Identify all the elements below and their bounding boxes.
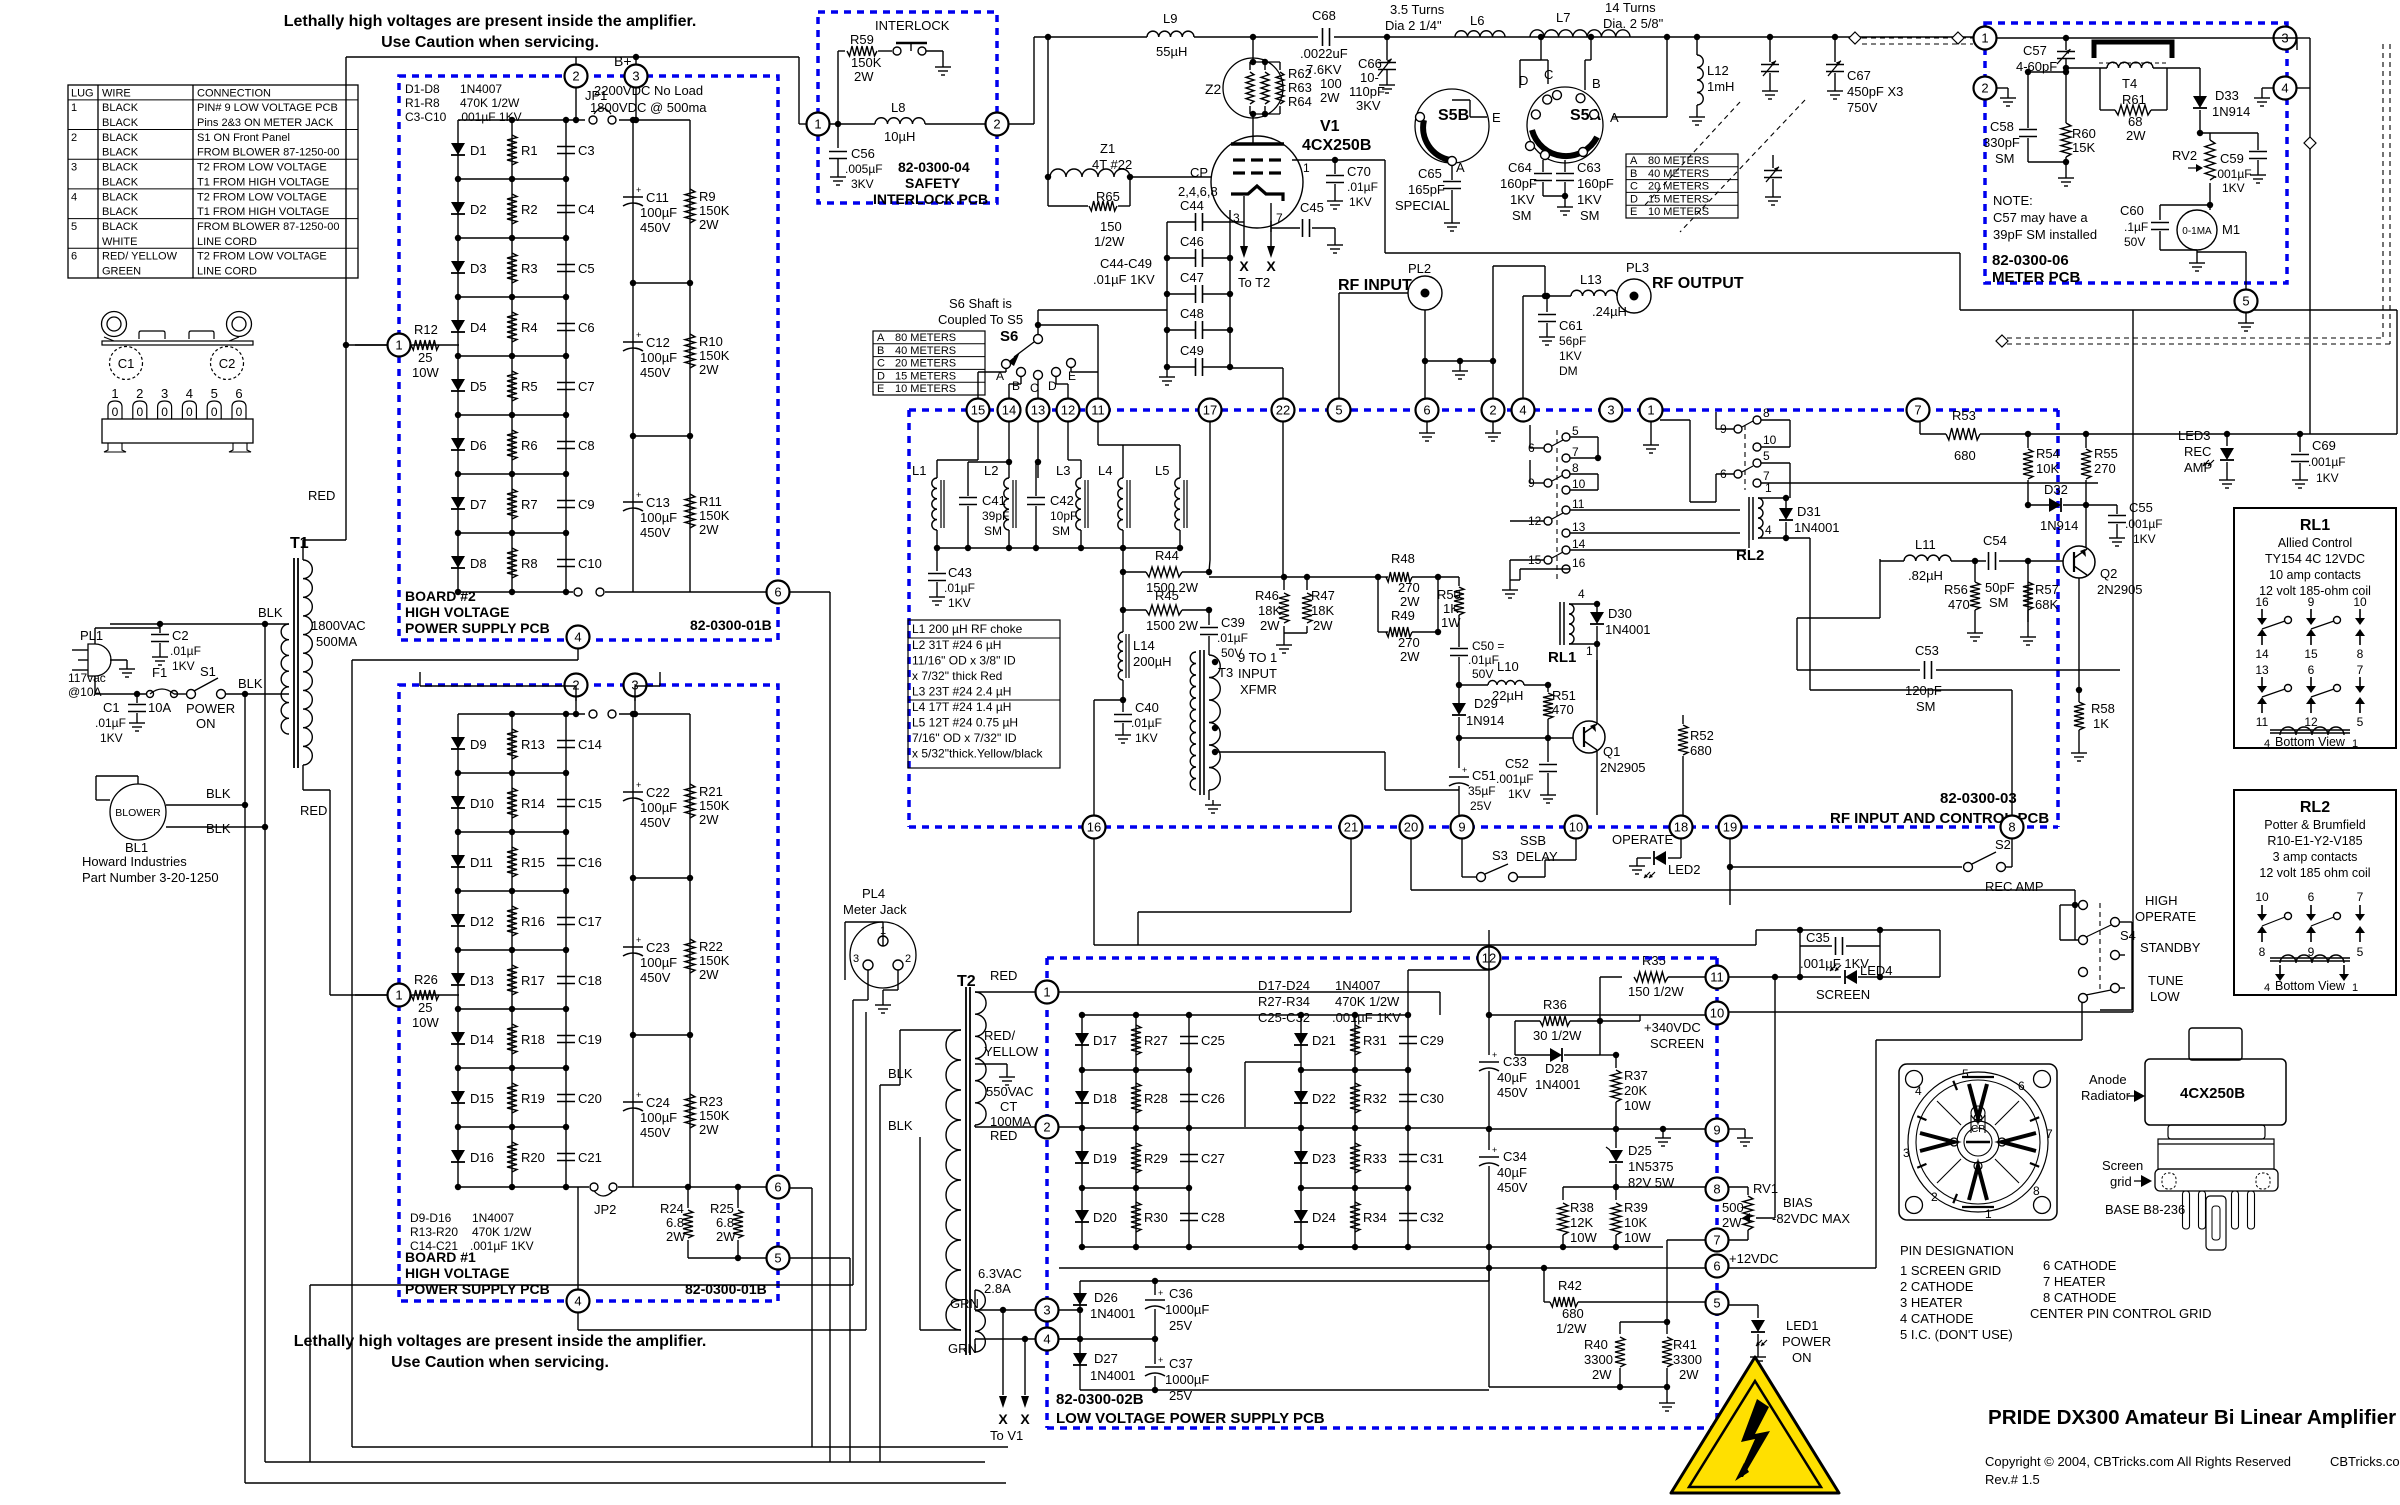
svg-text:C4: C4 [578,202,595,217]
inductor L2 [984,463,1016,548]
wire R46 R47 feed [1209,574,1378,580]
svg-text:50V: 50V [1472,667,1493,681]
capacitor C47 [1164,270,1233,303]
tube side view body [2155,1125,2278,1250]
resistor R59 [838,32,892,84]
relay RL2 contact 9 [1720,421,1753,436]
wire board2 node2 to interlock node1 [576,57,806,124]
svg-text:PL2: PL2 [1408,261,1431,276]
svg-text:R58: R58 [2091,701,2115,716]
svg-text:8: 8 [2259,945,2266,959]
node 3 board1 [624,674,647,697]
warning text bottom [294,1333,707,1371]
capacitor C33 [1479,1021,1528,1129]
svg-text:450V: 450V [640,220,671,235]
svg-text:SM: SM [1512,208,1532,223]
svg-text:.01µF 1KV: .01µF 1KV [1093,272,1155,287]
resistor R36 [1408,997,1600,1128]
svg-text:C51: C51 [1472,768,1496,783]
svg-text:R27-R34: R27-R34 [1258,994,1310,1009]
LED4 SCREEN [1800,946,1893,1002]
svg-text:SM: SM [984,524,1002,538]
capacitor C14 [557,737,602,752]
svg-text:C70: C70 [1347,164,1371,179]
wire board2 bottom rail [455,588,778,596]
svg-text:S4: S4 [2120,928,2136,943]
svg-text:10W: 10W [412,1015,439,1030]
wire right edge long run [2133,310,2397,434]
svg-text:C52: C52 [1505,756,1529,771]
svg-text:1N4001: 1N4001 [1794,520,1840,535]
diode D13 [451,973,494,988]
impedance Z2 [1205,58,1283,118]
variable capacitor tune [1761,37,1779,99]
svg-text:4CX250B: 4CX250B [2180,1085,2245,1102]
svg-text:270: 270 [2094,461,2116,476]
svg-text:10K: 10K [1624,1215,1647,1230]
svg-text:25V: 25V [1169,1388,1192,1403]
wire node 11 to LED4 [1729,930,1940,980]
node 1 RF top [1640,399,1663,422]
svg-text:T1: T1 [290,535,309,552]
svg-text:.01µF: .01µF [1347,180,1378,194]
svg-text:C1: C1 [118,356,135,371]
svg-text:5: 5 [1962,1067,1969,1081]
svg-text:1N5375: 1N5375 [1628,1159,1674,1174]
svg-text:SAFETY: SAFETY [905,175,961,191]
svg-text:PL3: PL3 [1626,260,1649,275]
svg-text:D14: D14 [470,1032,494,1047]
svg-text:1N4001: 1N4001 [1605,622,1651,637]
svg-text:D: D [877,370,885,382]
svg-text:1000µF: 1000µF [1165,1372,1209,1387]
node 12 RF top [1057,399,1080,422]
svg-text:8: 8 [1763,406,1770,420]
svg-text:2: 2 [572,69,579,84]
inductor L4 [1098,463,1130,548]
potentiometer RV1 [1722,1181,1778,1240]
wire Q2 emitter down [2076,505,2086,702]
svg-text:C2: C2 [172,628,189,643]
svg-text:R20: R20 [521,1150,545,1165]
svg-text:1000µF: 1000µF [1165,1302,1209,1317]
svg-text:X: X [998,1411,1008,1427]
svg-text:C68: C68 [1312,8,1336,23]
svg-text:450V: 450V [1497,1085,1528,1100]
svg-text:BL1: BL1 [125,840,148,855]
svg-text:270: 270 [1398,635,1420,650]
node 12 LV [1478,947,1501,970]
capacitor C50 [1450,639,1504,685]
svg-text:RED/ YELLOW: RED/ YELLOW [102,251,178,263]
svg-text:10: 10 [1710,1006,1724,1021]
T2 secondary LT winding [975,1290,985,1352]
svg-text:6: 6 [71,251,77,263]
ground node2 RF [1485,422,1501,441]
svg-text:C65: C65 [1418,166,1442,181]
capacitor C58 [1983,69,2066,166]
svg-text:BLACK: BLACK [102,102,139,114]
svg-text:RED: RED [990,968,1017,983]
node 14 RF top [998,399,1021,422]
capacitor C7 [557,379,595,394]
svg-text:R44: R44 [1155,548,1179,563]
svg-text:1W: 1W [1441,615,1461,630]
svg-text:R10: R10 [699,334,723,349]
svg-text:2W: 2W [699,362,719,377]
resistor R50 [1437,577,1464,647]
svg-text:0: 0 [236,405,243,419]
svg-text:12: 12 [1061,403,1075,418]
svg-text:S5B: S5B [1438,107,1469,124]
svg-text:80 METERS: 80 METERS [1648,155,1709,167]
svg-text:R51: R51 [1552,688,1576,703]
diode D10 [451,796,494,811]
RF input and control PCB box 82-0300-03 [909,410,2058,827]
transformer T2 [957,973,976,1355]
board #1 high voltage power supply PCB box [399,685,778,1301]
diode D11 [451,855,493,870]
svg-text:R21: R21 [699,784,723,799]
svg-text:C69: C69 [2312,438,2336,453]
svg-text:2W: 2W [699,812,719,827]
svg-text:C30: C30 [1420,1091,1444,1106]
svg-text:1: 1 [1043,985,1050,1000]
svg-text:C35: C35 [1806,930,1830,945]
svg-text:Coupled To S5: Coupled To S5 [938,312,1023,327]
ground node2 meter [1997,88,2016,106]
svg-text:Part Number 3-20-1250: Part Number 3-20-1250 [82,870,219,885]
wire RL1 coil to Q1 [1596,644,1598,700]
svg-text:Bottom View: Bottom View [2275,979,2346,993]
board #1 parts note [410,1211,534,1253]
relay coil RL2 [1736,481,1786,564]
wire RL1 contacts routing [1502,425,1746,598]
svg-text:T1 FROM HIGH VOLTAGE: T1 FROM HIGH VOLTAGE [197,176,329,188]
relay RL1 contact 15 [1528,552,1563,567]
svg-text:.01µF: .01µF [95,716,126,730]
svg-text:2200VDC No Load: 2200VDC No Load [594,83,703,98]
svg-text:L4 17T #24 1.4 µH: L4 17T #24 1.4 µH [912,700,1011,714]
svg-text:30 1/2W: 30 1/2W [1533,1028,1582,1043]
svg-text:5: 5 [71,221,77,233]
svg-text:C26: C26 [1201,1091,1225,1106]
svg-text:C: C [877,358,885,370]
svg-text:R40: R40 [1584,1337,1608,1352]
wire R36 to node 10 [1486,1012,1705,1024]
svg-text:BIAS: BIAS [1783,1195,1813,1210]
node 20 RF bottom [1400,816,1423,839]
svg-text:B: B [1012,379,1020,393]
svg-text:R28: R28 [1144,1091,1168,1106]
wire node7 wiring [1620,1240,1705,1325]
svg-text:D18: D18 [1093,1091,1117,1106]
svg-text:16: 16 [2255,595,2269,609]
svg-text:.0022uF: .0022uF [1300,46,1348,61]
LED3 REC AMP [2178,428,2235,488]
svg-text:4: 4 [71,191,77,203]
resistors R62 R63 R64 [1246,37,1342,117]
svg-text:R56: R56 [1944,582,1968,597]
svg-text:R64: R64 [1288,94,1312,109]
T1 primary winding [281,624,289,734]
svg-text:A: A [877,332,885,344]
inductor L13 [1571,272,1627,319]
svg-text:C9: C9 [578,497,595,512]
svg-text:C63: C63 [1577,160,1601,175]
capacitor C26 [1180,1091,1225,1106]
resistor R11 [685,494,730,537]
svg-text:1N4007: 1N4007 [472,1211,514,1225]
svg-text:.1µF: .1µF [2124,220,2148,234]
svg-text:9: 9 [2308,595,2315,609]
svg-text:1KV: 1KV [1135,731,1158,745]
svg-text:R55: R55 [2094,446,2118,461]
svg-text:D17: D17 [1093,1033,1117,1048]
capacitor C44 [1167,198,1230,231]
capacitor C23 [623,935,677,985]
wire PL2 ground bus [1422,266,1496,398]
coupling diamonds [1849,32,2316,347]
potentiometer RV2 [2172,133,2215,180]
interlock switch [893,43,951,75]
svg-text:18: 18 [1674,820,1688,835]
svg-text:D24: D24 [1312,1210,1336,1225]
capacitor C2 body [211,347,244,380]
relay RL1 contact 16 [1562,556,1586,573]
svg-text:R33: R33 [1363,1151,1387,1166]
svg-text:7: 7 [1763,469,1770,483]
svg-text:R54: R54 [2036,446,2060,461]
capacitor C63 [1543,160,1614,223]
resistor R1 [507,135,538,165]
capacitor C49 [1164,343,1233,376]
terminal strip lugs 1-6 [102,386,253,452]
svg-text:C3: C3 [578,143,595,158]
svg-text:6.8: 6.8 [666,1215,684,1230]
svg-text:LINE CORD: LINE CORD [197,236,257,248]
wire R40 R41 bottom [1489,1247,1675,1411]
relay RL1 pin diagram [2255,595,2367,729]
svg-text:POWER SUPPLY PCB: POWER SUPPLY PCB [405,620,550,636]
svg-text:D26: D26 [1094,1290,1118,1305]
capacitor C40 [1114,697,1162,745]
svg-text:R62: R62 [1288,66,1312,81]
capacitor C48 [1164,306,1233,339]
svg-text:DM: DM [1559,364,1578,378]
inductor L11 [1880,537,1986,583]
svg-text:C43: C43 [948,565,972,580]
svg-text:BOARD #2: BOARD #2 [405,588,476,604]
wire Q1 base feed [1459,737,1573,739]
diode D3 [451,261,487,276]
svg-text:Lethally high voltages are pre: Lethally high voltages are present insid… [294,1333,707,1350]
svg-text:2W: 2W [1722,1215,1742,1230]
wire RL2 contacts routing [1660,412,2098,502]
capacitor C53 [1797,643,2120,714]
svg-text:LOW: LOW [2150,989,2180,1004]
svg-text:INTERLOCK PCB: INTERLOCK PCB [873,191,988,207]
svg-text:680: 680 [1954,448,1976,463]
svg-text:3300: 3300 [1673,1352,1702,1367]
svg-text:D10: D10 [470,796,494,811]
meter pcb title [1992,252,2081,286]
resistor R44 [1120,548,1209,595]
svg-text:Lethally high voltages are pre: Lethally high voltages are present insid… [284,13,697,30]
svg-text:0: 0 [161,405,168,419]
wire L13 to RF box [1493,266,1571,398]
svg-text:To T2: To T2 [1238,275,1270,290]
svg-text:6: 6 [235,386,242,401]
svg-text:5: 5 [2357,715,2364,729]
node 5 RF top [1328,399,1351,422]
svg-text:470K 1/2W: 470K 1/2W [1335,994,1400,1009]
svg-text:C16: C16 [578,855,602,870]
svg-text:68: 68 [2128,114,2142,129]
wire elec rails [630,714,693,1187]
relay RL1 contact 8 [1562,461,1579,478]
svg-text:SCREEN: SCREEN [1650,1036,1704,1051]
svg-text:Z1: Z1 [1100,141,1115,156]
diode D32 [2028,482,2086,533]
relay RL1 contact 11 [1562,497,1585,514]
svg-text:.005µF: .005µF [845,162,883,176]
resistor R61 [2063,65,2167,143]
svg-text:RL2: RL2 [2300,799,2330,816]
relay RL1 coil symbol [2264,727,2358,750]
svg-text:D31: D31 [1797,504,1821,519]
node 11 LV [1706,966,1729,989]
resistor R33 [1350,1143,1387,1173]
svg-text:JP1: JP1 [585,88,607,103]
svg-text:3: 3 [853,953,859,965]
board #2 voltage note [590,83,707,115]
svg-text:470K 1/2W: 470K 1/2W [472,1225,532,1239]
svg-text:L1 200 µH RF choke: L1 200 µH RF choke [912,622,1023,636]
svg-text:L4: L4 [1098,463,1112,478]
relay RL1 contact 10 [1562,477,1586,494]
svg-text:C10: C10 [578,556,602,571]
low voltage PCB box 82-0300-02B [1047,958,1717,1428]
svg-text:450V: 450V [640,1125,671,1140]
wire L14 C40 to node16 [1094,700,1123,815]
svg-text:R36: R36 [1543,997,1567,1012]
resistor R30 [1131,1202,1168,1232]
svg-text:14: 14 [2255,647,2269,661]
svg-text:D29: D29 [1474,696,1498,711]
svg-text:.82µH: .82µH [1908,568,1943,583]
svg-text:C54: C54 [1983,533,2007,548]
capacitor C18 [557,973,602,988]
resistor R48 [1375,551,1441,609]
svg-text:C40: C40 [1135,700,1159,715]
svg-text:3KV: 3KV [1356,98,1381,113]
capacitor C51 [1449,738,1496,813]
svg-text:R13: R13 [521,737,545,752]
wire node12 stub [1488,930,1490,946]
resistor R52 [1678,715,1714,815]
svg-text:D9: D9 [470,737,487,752]
terminal strip C1 C2 mounting [102,312,254,346]
svg-text:.24µH: .24µH [1592,304,1627,319]
svg-text:80 METERS: 80 METERS [895,332,956,344]
svg-text:R18: R18 [521,1032,545,1047]
+340VDC SCREEN label [1644,1020,1704,1051]
svg-text:R8: R8 [521,556,538,571]
svg-text:BLK: BLK [238,676,263,691]
svg-text:To V1: To V1 [990,1428,1023,1443]
svg-text:CP: CP [1971,1124,1985,1135]
inductor L12 [1689,37,1734,125]
svg-text:0-1MA: 0-1MA [2182,226,2212,237]
svg-text:100µF: 100µF [640,1110,677,1125]
svg-text:450V: 450V [640,525,671,540]
svg-text:+: + [1492,1050,1497,1060]
svg-text:BLACK: BLACK [102,191,139,203]
svg-text:4: 4 [2264,982,2270,994]
svg-text:FROM BLOWER 87-1250-00: FROM BLOWER 87-1250-00 [197,147,339,159]
svg-text:E: E [1492,110,1501,125]
svg-text:C47: C47 [1180,270,1204,285]
resistor R32 [1350,1083,1387,1113]
wire meter node3 bar [2273,38,2297,50]
svg-text:20 METERS: 20 METERS [1648,181,1709,193]
relay coil RL1 [1548,587,1597,666]
wire B+ node3 up [633,54,639,64]
svg-text:150K: 150K [699,1108,730,1123]
svg-text:5: 5 [774,1251,781,1266]
svg-text:Anode: Anode [2089,1072,2127,1087]
resistor R16 [507,906,545,936]
svg-text:16: 16 [1572,556,1586,570]
mechanical coupling dashed top right [1862,38,2390,344]
capacitor C5 [557,261,595,276]
svg-text:160pF: 160pF [1577,176,1614,191]
svg-text:7: 7 [1276,211,1283,225]
svg-text:D11: D11 [470,855,493,870]
board #2 high voltage power supply PCB box [399,76,778,640]
wire ladder rails [455,117,569,592]
svg-text:14: 14 [1002,403,1016,418]
inductor L5 [1155,463,1187,548]
node 13 RF top [1027,399,1050,422]
copyright text [1985,1454,2400,1487]
svg-text:39pF SM installed: 39pF SM installed [1993,227,2097,242]
diode D27 [1059,1336,1136,1383]
T1 secondary winding [303,560,312,765]
node 10 LV [1706,1002,1729,1025]
svg-text:4CX250B: 4CX250B [1302,137,1371,154]
diode D9 [451,737,487,752]
capacitor C31 [1399,1151,1444,1166]
svg-text:1: 1 [111,386,118,401]
svg-text:14 Turns: 14 Turns [1605,0,1656,15]
svg-text:200µH: 200µH [1133,654,1172,669]
svg-text:C48: C48 [1180,306,1204,321]
node 10 RF bottom [1565,816,1588,839]
svg-text:2W: 2W [1679,1367,1699,1382]
capacitor C46 [1164,234,1233,267]
svg-text:3: 3 [1043,1303,1050,1318]
svg-text:PL1: PL1 [80,628,103,643]
svg-text:18K: 18K [1258,603,1281,618]
diode D21 [1294,1033,1336,1048]
svg-text:10 METERS: 10 METERS [1648,206,1709,218]
svg-text:C28: C28 [1201,1210,1225,1225]
svg-text:15: 15 [971,403,985,418]
svg-text:S3: S3 [1492,848,1508,863]
svg-text:D30: D30 [1608,606,1632,621]
